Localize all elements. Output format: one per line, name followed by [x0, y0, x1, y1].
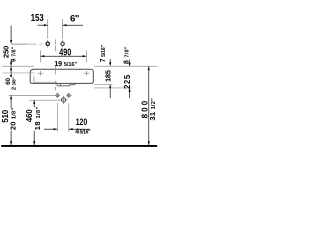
dim 153/6": extension lines: [47, 19, 49, 39]
floor line: [1, 145, 157, 147]
svg-text:120: 120: [76, 116, 88, 127]
slab bottom extension right: [94, 83, 112, 85]
svg-text:8 7/8": 8 7/8": [123, 46, 130, 64]
dim 460 vertical: [33, 100, 35, 104]
svg-text:225: 225: [123, 74, 132, 89]
fixing hole cross 2: [67, 94, 70, 97]
bowl underside line: [34, 81, 57, 83]
tap hole horizontal line: [11, 43, 27, 45]
drain center horizontal line: [29, 99, 61, 101]
tap hole circle 1: [46, 42, 49, 45]
slab cross left: [38, 71, 43, 76]
dim 185 vertical right: [109, 59, 111, 62]
rim-top reference line left: [2, 65, 34, 67]
svg-text:6": 6": [70, 14, 79, 25]
svg-text:185: 185: [104, 70, 113, 82]
svg-text:9 7/8": 9 7/8": [10, 46, 17, 62]
dim 250 vertical at left: [10, 26, 12, 41]
dim 153 arrow right: [63, 24, 67, 26]
dim 225 vertical right: [129, 60, 131, 64]
drain boss under slab: [57, 83, 77, 86]
250 bottom arrow (pointing up at 66.2 line): [10, 66, 12, 70]
dim 60 arrows: [10, 60, 12, 63]
dim 153/6": leaders: [38, 24, 48, 26]
dim 120 leaders and arrows: [44, 128, 57, 130]
fixing hole cross 1: [56, 94, 59, 97]
dim 120: ext lines: [56, 103, 58, 132]
vertical centerline dashes: [55, 39, 57, 90]
svg-text:490: 490: [59, 46, 71, 57]
rim-top reference line right: [94, 65, 157, 67]
svg-text:45/16": 45/16": [75, 128, 91, 135]
tap hole circle 2: [61, 42, 64, 45]
dim 490: ext lines: [40, 50, 42, 62]
dim 510 vertical: [10, 96, 12, 100]
line at y=73 left (60 dim lower ref): [3, 72, 35, 74]
fixing holes horizontal line: [9, 95, 55, 97]
svg-text:153: 153: [31, 12, 44, 23]
inner bowl wall line: [33, 76, 35, 83]
lower reference line right: [94, 87, 132, 89]
dim 800 vertical far right: [148, 66, 150, 70]
svg-text:250: 250: [1, 46, 10, 58]
washbasin front slab outline: [30, 69, 93, 83]
slab cross right: [84, 71, 89, 76]
drain circle: [61, 98, 65, 102]
dim 490 line with arrows: [41, 55, 87, 57]
svg-text:7 5/16": 7 5/16": [100, 45, 107, 63]
dim 153 arrow left: [44, 24, 48, 26]
